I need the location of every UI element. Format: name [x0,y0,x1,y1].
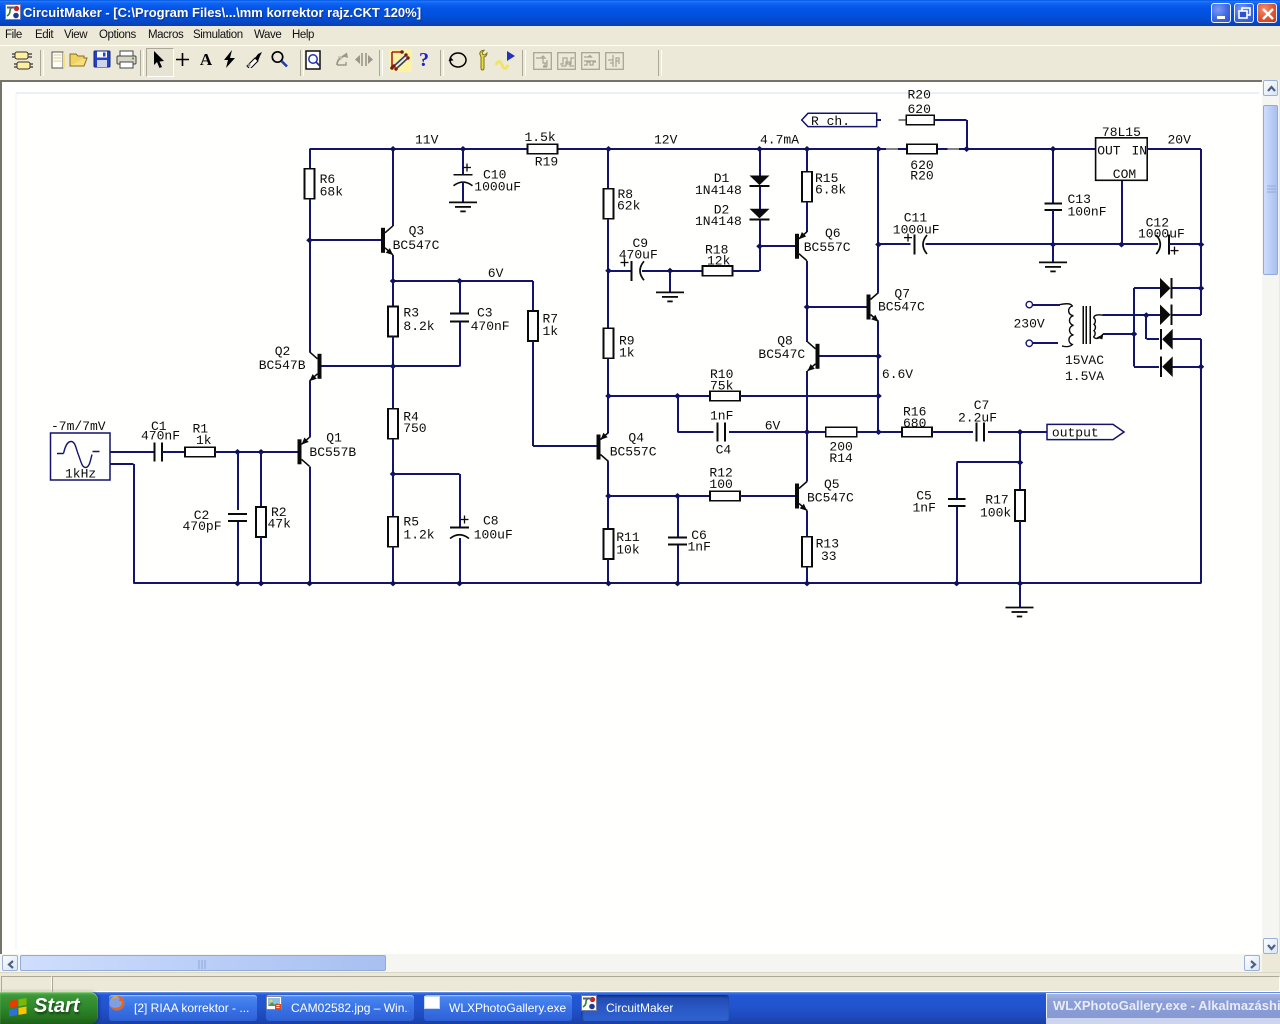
svg-text:BC557B: BC557B [309,445,356,460]
node junction Q7 base tap [804,304,811,310]
node junction R14/R16 [875,429,882,435]
svg-text:470pF: 470pF [183,519,222,534]
resistor R18 12k [703,266,733,276]
wire C11 lead left [879,243,911,245]
status bar [0,972,1280,993]
svg-text:1N4148: 1N4148 [695,214,742,229]
resistor R20 second 620 [886,148,898,150]
node junction secondary bottom [1131,331,1138,337]
wire R20 to rail corner [934,119,966,121]
svg-text:1nF: 1nF [913,500,936,515]
node junction output [1017,429,1024,435]
node junction R3/R4/Q2 base [390,363,397,369]
node junction C2 tap [234,449,241,455]
resistor R16 680 [879,431,903,433]
svg-text:47k: 47k [268,517,292,532]
wire C10 to ground [462,182,464,203]
wire Q8 base [820,355,879,357]
svg-text:R19: R19 [535,155,558,170]
svg-text:75k: 75k [710,379,734,394]
svg-text:10k: 10k [616,542,640,557]
node junction ground tap [667,268,674,274]
wire Q3 base [310,239,382,241]
capacitor C10 electrolytic [462,149,464,174]
diode bridge C [1162,329,1173,350]
svg-text:1.5VA: 1.5VA [1065,369,1104,384]
svg-text:1kHz: 1kHz [65,467,96,482]
svg-text:R ch.: R ch. [811,114,850,129]
resistor R1 1k [185,447,215,457]
wire R7 to Q4 base [532,341,534,446]
horizontal scrollbar [0,954,1262,972]
node junction C4 branch [674,393,681,399]
svg-text:BC547C: BC547C [393,238,440,253]
resistor R2 47k [260,452,262,507]
capacitor C11 electrolytic [914,235,916,255]
wire R8 bottom to C9 node [607,219,609,271]
wire bridge C right [1173,338,1201,340]
wire R5 bottom to ground rail [392,547,394,584]
wire Q2 emitter to Q1 emitter [309,381,311,438]
wire column to R10 [877,356,879,396]
node junction rail Q1 [306,580,313,586]
wire C1 to R1 [162,451,185,453]
svg-text:1000uF: 1000uF [474,180,521,195]
svg-text:620: 620 [908,102,931,117]
svg-text:4.7mA: 4.7mA [760,133,799,148]
svg-text:1k: 1k [196,433,212,448]
svg-text:6.6V: 6.6V [882,367,913,382]
svg-text:-7m/7mV: -7m/7mV [51,419,106,434]
resistor R10 75k [710,391,740,401]
wire source bottom lead [110,463,134,465]
ground under C10 [449,201,477,203]
regulator U1 78L15 [1096,138,1148,181]
svg-text:R20: R20 [908,87,931,102]
taskbar [0,992,1280,1024]
transistor Q8 BC547C [816,344,820,369]
node junction rail R17 [1017,580,1024,586]
wire R4-C8 link [393,473,460,475]
ground near C9 [656,291,684,293]
node junction Q7 rail [875,146,882,152]
transistor Q3 BC547C [381,228,385,253]
node junction C5/R17 [1017,460,1024,466]
diode bridge D [1162,356,1173,377]
wire Q7 collector vertical [877,149,879,293]
window title bar [0,0,1280,26]
wire bridge D leads [1134,366,1159,368]
resistor R7 [532,281,534,311]
capacitor C12 electrolytic [1168,235,1170,255]
transistor Q4 BC557C [597,435,601,460]
svg-text:output: output [1052,426,1099,441]
node junction R8 rail [605,146,612,152]
wire 11V/12V top rail [310,148,887,150]
svg-text:68k: 68k [320,185,344,200]
toolbar [0,45,1280,81]
wire secondary bottom lead [1103,333,1134,335]
node junction R4/R5/C8 [390,471,397,477]
wire Q6 collector down [806,261,808,342]
wire primary bottom [1033,342,1059,344]
svg-text:6.8k: 6.8k [815,183,846,198]
R ch. port flag [802,113,877,126]
svg-text:2.2uF: 2.2uF [958,411,997,426]
svg-text:33: 33 [821,549,837,564]
svg-text:470uF: 470uF [619,248,658,263]
resistor R3 [392,281,394,307]
transformer T1 core [1082,306,1084,344]
wire R16 to C7 [932,431,973,433]
node junction Q3 rail [390,146,397,152]
wire C8 bottom to ground rail [459,538,461,583]
svg-text:BC547B: BC547B [259,358,306,373]
svg-text:R14: R14 [829,451,853,466]
wire to C12 [1122,243,1159,245]
node junction C6 branch [674,493,681,499]
wire R11 bottom to ground rail [607,559,609,583]
wire C11 to C13 node [926,243,1054,245]
resistor R6 [305,169,315,199]
capacitor C13 100nF [1052,149,1054,203]
svg-text:100k: 100k [980,506,1011,521]
wire C4 to Q8 node [729,431,807,433]
wire Q6 base [760,245,796,247]
wire R15 to Q6 emitter [806,202,808,232]
wire R ch. to R20 [877,119,881,121]
wire Q4 emitter vertical [607,396,609,433]
transformer T1 terminals 230V [1026,301,1032,307]
node junction rail C6 [674,580,681,586]
resistor R14 200 [807,431,826,433]
WLXPhotoGallery inactive title bar [1046,993,1280,1018]
wire column to R16 line [877,396,879,432]
svg-text:62k: 62k [617,199,641,214]
wire IN pin to 20V corner [1147,148,1201,150]
vertical scrollbar [1262,80,1279,954]
capacitor C8 electrolytic [459,474,461,527]
resistor R12 100 [710,491,740,501]
svg-text:BC557C: BC557C [804,240,851,255]
wire R18 to Q6 base corner [733,270,760,272]
capacitor C7 2.2uF [976,423,978,442]
capacitor C4 1nF [717,423,719,442]
node junction R15 rail [804,146,811,152]
wire Q5 emitter to R13 [806,511,808,537]
node junction Q6 base [756,243,763,249]
wire R12 line left [609,495,711,497]
wire R3 bottom to base node [392,337,394,367]
node junction C10 rail [460,146,467,152]
diode D1 1N4148 [750,176,770,186]
node junction R2 tap [258,449,265,455]
wire R9 [607,271,609,329]
wire R10 line right [740,395,879,397]
transformer T1 primary coil [1060,304,1074,347]
node junction C13/ground [1050,242,1057,248]
wire primary top [1033,304,1061,306]
wire C6 to ground rail [677,546,679,584]
wire R9 bottom to R10 node [607,358,609,396]
wire C4 branch [677,396,679,432]
svg-text:15VAC: 15VAC [1065,353,1104,368]
node junction R9/R10 [605,393,612,399]
capacitor C9 electrolytic [609,270,632,272]
svg-text:12k: 12k [707,254,731,269]
wire bridge B leads [1146,314,1160,316]
wire R17 to ground rail [1019,521,1021,583]
svg-text:BC557C: BC557C [610,445,657,460]
wire R12 to Q5 base [740,495,795,497]
resistor R13 33 [802,537,812,567]
wire Q2 collector vertical [309,240,311,351]
svg-text:Q2: Q2 [275,344,291,359]
svg-text:Q4: Q4 [628,431,644,446]
node junction rail R2 [258,580,265,586]
transistor Q2 BC547B [318,354,322,379]
node junction C13 rail [1050,146,1057,152]
svg-text:1.5k: 1.5k [525,130,556,145]
node junction rail C2 [234,580,241,586]
svg-text:100: 100 [709,477,732,492]
wire Q2 base / C3 bottom line [322,365,460,367]
capacitor C5 1nF [948,498,966,500]
node junction R6/Q3 base [306,237,313,243]
wire Q3 emitter to 6V rail [392,255,394,281]
svg-text:12V: 12V [654,133,678,148]
svg-text:R20: R20 [910,169,933,184]
resistor R9 [604,328,614,358]
wire bridge right top [1200,245,1202,289]
svg-text:1nF: 1nF [710,408,733,423]
node junction R20 rail [963,146,970,152]
node junction R10 end [875,393,882,399]
wire D1 top lead [759,149,761,176]
menu bar [0,26,1280,45]
wire output node down [1019,432,1021,463]
node junction C11 tap [875,242,882,248]
svg-text:8.2k: 8.2k [403,319,434,334]
svg-text:BC547C: BC547C [807,491,854,506]
wire Q3 collector to rail [392,149,394,226]
svg-text:1.2k: 1.2k [403,528,434,543]
wire Q8 emitter down [806,371,808,432]
node junction bridge A right [1198,285,1205,291]
node junction bridge D right [1198,364,1205,370]
wire R14 to node [857,431,879,433]
transistor Q1 BC557B [298,439,302,464]
wire Q1 collector to ground rail [309,466,311,583]
node junction Q4/R11/R12 [605,493,612,499]
svg-text:11V: 11V [415,133,439,148]
node junction 6V/C3 [456,278,463,284]
wire bridge mid branch [1145,315,1147,339]
wire R4 bottom to node [392,439,394,474]
resistor R11 [607,496,609,529]
wire Q7 base [807,306,868,308]
output port flag [1047,424,1124,439]
transistor Q7 BC547C [867,295,871,320]
svg-text:1N4148: 1N4148 [695,183,742,198]
svg-text:BC547C: BC547C [758,347,805,362]
svg-text:470nF: 470nF [471,319,510,334]
resistor R8 [607,149,609,189]
node junction Q8 base end [875,353,882,359]
resistor R17 100k [1019,463,1021,491]
svg-text:100nF: 100nF [1068,204,1107,219]
svg-text:78L15: 78L15 [1102,125,1141,140]
wire D1-D2 [759,187,761,209]
diode bridge B [1160,305,1171,326]
svg-text:470nF: 470nF [141,429,180,444]
capacitor C6 1nF [677,496,679,537]
svg-text:OUT: OUT [1097,144,1121,159]
wire R10 line left [609,395,711,397]
svg-text:COM: COM [1113,167,1136,182]
wire source top lead [110,451,154,453]
wire R6 top lead [309,149,311,169]
resistor R20 top 620 [906,115,934,125]
wire D2 to Q6 base node [759,220,761,246]
svg-text:100uF: 100uF [474,528,513,543]
sheet page border line [16,92,1259,94]
svg-text:230V: 230V [1014,317,1045,332]
wire C7 to output node [988,431,1047,433]
transistor Q6 BC557C [795,234,799,259]
wire bridge to ground rail corner [1200,367,1202,584]
wire COM pin [1121,180,1123,244]
wire R13 to ground rail [806,567,808,584]
node junction secondary top [1143,312,1150,318]
wire C9 to R18 [642,270,703,272]
resistor R5 [392,474,394,517]
svg-text:C8: C8 [483,513,499,528]
svg-text:1nF: 1nF [688,540,711,555]
signal generator V1 [51,433,111,480]
wire secondary top lead [1103,314,1147,316]
wire to COM node [1053,243,1122,245]
wire bridge D1a top leads [1134,287,1160,289]
wire R2 to ground rail [260,537,262,583]
capacitor C1 470nF [153,443,155,462]
wire Q4 collector to R12 node [607,462,609,497]
diode bridge A [1160,278,1171,299]
node junction COM [1118,242,1125,248]
ground under C13 [1039,261,1067,263]
wire Q5 collector up [806,432,808,482]
wire ground stub under C13 [1052,245,1054,263]
wire C5 branch top [957,461,1020,463]
transformer T1 secondary coil [1094,315,1103,339]
capacitor C2 470pF [237,452,239,510]
wire ground rail [134,582,1201,584]
wire main ground stub [1019,583,1021,607]
svg-text:Q6: Q6 [825,226,841,241]
svg-text:6V: 6V [488,266,504,281]
wire Q7 emitter vertical [877,322,879,357]
diode D2 1N4148 [750,209,770,219]
wire ground stub [669,271,671,292]
wire C5 to ground rail [956,507,958,584]
wire C2 to ground rail [237,522,239,584]
svg-text:680: 680 [903,416,926,431]
node junction rail R13 [804,580,811,586]
svg-text:Q1: Q1 [326,431,342,446]
capacitor C3 [459,281,461,313]
resistor R4 [392,366,394,409]
svg-text:1000uF: 1000uF [1138,227,1185,242]
svg-text:BC547C: BC547C [878,300,925,315]
node junction C9 [605,268,612,274]
wire R6 bottom to Q3 base node [309,199,311,241]
svg-text:1k: 1k [543,324,559,339]
transistor Q5 BC547C [795,484,799,509]
svg-text:1000uF: 1000uF [893,222,940,237]
ground main [1006,607,1034,609]
node junction D1 rail [756,146,763,152]
wire bridge left column [1133,288,1135,367]
svg-text:750: 750 [403,421,426,436]
node junction rail C8 [456,580,463,586]
resistor R15 [806,149,808,172]
svg-text:IN: IN [1132,144,1148,159]
resistor R19 1.5k [528,144,558,154]
node junction rail R11 [605,580,612,586]
svg-text:6V: 6V [765,418,781,433]
svg-text:C4: C4 [716,443,732,458]
svg-text:1k: 1k [619,346,635,361]
node junction rail R5 [390,580,397,586]
svg-text:20V: 20V [1168,133,1192,148]
node junction 6V/R3 [390,278,397,284]
wire R1 to Q1 base [215,451,298,453]
node junction rail C5 [953,580,960,586]
wire 6V rail [393,280,533,282]
node junction Q8/Q5/C4 line [804,429,811,435]
node junction C12/IN/bridge [1198,242,1205,248]
svg-text:Q3: Q3 [409,224,425,239]
wire C12 to bridge column [1169,243,1201,245]
